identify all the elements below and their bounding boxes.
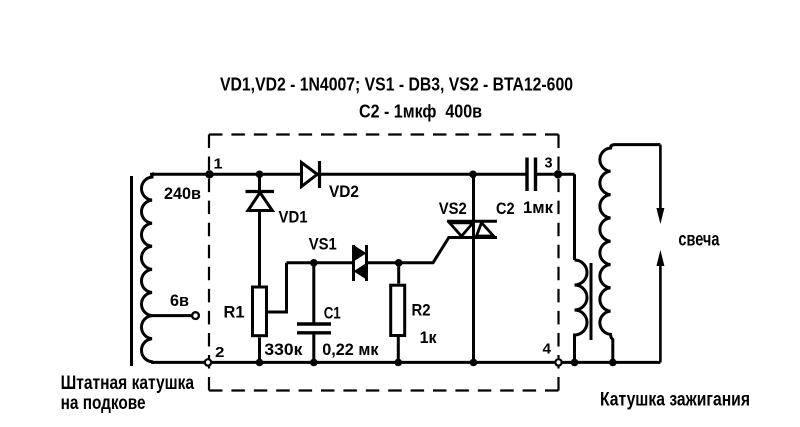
junction dot triac bottom	[470, 359, 478, 367]
diac VS1 left bar	[352, 245, 355, 281]
wire C1 branch bottom	[312, 335, 315, 363]
diode VD1 triangle	[248, 193, 272, 211]
wire top rail left (node1 to C2 left plate)	[150, 173, 526, 176]
svg-text:Катушка зажигания: Катушка зажигания	[600, 389, 750, 411]
dashed enclosure box top edge	[209, 133, 559, 135]
triac VS2 right triangle	[477, 223, 494, 236]
svg-text:1мк: 1мк	[523, 199, 554, 217]
capacitor C1 bottom plate	[297, 331, 331, 334]
capacitor C2 left plate	[525, 158, 528, 192]
svg-text:свеча: свеча	[678, 229, 719, 251]
diode VD1 cathode bar	[246, 190, 275, 193]
svg-text:1к: 1к	[420, 329, 438, 347]
diac VS1 bottom triangle	[355, 265, 366, 279]
svg-text:C1: C1	[324, 305, 341, 323]
svg-text:VD1: VD1	[279, 209, 308, 227]
svg-text:C2 - 1мкф 400в: C2 - 1мкф 400в	[359, 102, 482, 122]
capacitor C1 top plate	[297, 322, 331, 325]
wire R2 branch top	[397, 263, 400, 284]
wire 6v tap	[152, 314, 192, 317]
wire spark gap lower lead	[659, 265, 662, 362]
capacitor C2 right plate	[534, 158, 537, 192]
junction dot R1 bottom	[256, 359, 264, 367]
svg-text:VS2: VS2	[439, 200, 467, 218]
dashed enclosure box bottom edge	[209, 389, 559, 391]
junction dot primary bottom	[571, 359, 579, 367]
node 1	[205, 170, 213, 178]
svg-text:VD1,VD2 - 1N4007; VS1 - DB3, V: VD1,VD2 - 1N4007; VS1 - DB3, VS2 - BTA12…	[220, 74, 573, 95]
transformer T1 winding (240v coil)	[141, 174, 154, 363]
diac VS1 top triangle	[355, 247, 366, 261]
transformer T1 core (left coil)	[130, 176, 133, 366]
wire spark gap upper lead	[659, 145, 662, 210]
diode VD2 cathode bar	[318, 161, 321, 188]
svg-text:330к: 330к	[264, 341, 303, 359]
wire ignition primary drop	[573, 174, 576, 260]
arrow spark gap upper (down)	[656, 208, 664, 224]
junction dot C1 bottom	[310, 359, 318, 367]
ignition coil core bar	[590, 263, 593, 340]
ignition coil secondary winding	[600, 145, 615, 363]
node 2	[205, 359, 211, 365]
wire VD1 branch top	[258, 174, 261, 285]
wire R2 bottom	[397, 337, 400, 362]
svg-text:R1: R1	[224, 304, 245, 322]
wire top rail right (C2 right plate to corner)	[537, 173, 575, 176]
svg-text:VD2: VD2	[329, 183, 359, 201]
ignition coil primary winding	[575, 260, 588, 362]
node 4	[555, 359, 561, 365]
svg-text:240в: 240в	[164, 185, 201, 203]
junction dot C1 top	[310, 259, 318, 267]
svg-text:C2: C2	[496, 200, 515, 218]
svg-text:6в: 6в	[170, 292, 189, 310]
svg-text:1: 1	[214, 156, 223, 173]
diode VD2 triangle	[302, 163, 318, 187]
svg-text:Штатная катушка: Штатная катушка	[61, 372, 195, 394]
wire R1 bottom	[258, 338, 261, 363]
svg-text:R2: R2	[412, 302, 431, 320]
resistor R2 body	[391, 285, 405, 335]
wire VS1 to gate diagonal	[367, 238, 449, 263]
svg-text:0,22 мк: 0,22 мк	[322, 341, 379, 359]
junction dot triac top	[469, 171, 477, 179]
node 3	[554, 170, 562, 178]
resistor R1 body	[253, 287, 267, 336]
junction dot R2 bottom	[395, 359, 403, 367]
junction dot secondary bottom	[609, 359, 617, 367]
svg-text:на подкове: на подкове	[61, 392, 146, 414]
triac VS2 left triangle	[450, 223, 474, 236]
svg-text:VS1: VS1	[309, 236, 337, 254]
dashed enclosure box right edge	[557, 135, 559, 391]
terminal 6v (open circle)	[192, 312, 199, 319]
diac VS1 right bar	[365, 245, 368, 281]
arrow spark gap lower (up)	[656, 250, 664, 266]
wire C1 branch top	[312, 263, 315, 323]
wire VS1 gate run (left of diac)	[287, 261, 354, 264]
wire triac branch vertical	[472, 174, 475, 362]
triac VS2 top bar	[447, 220, 497, 223]
svg-text:4: 4	[543, 341, 552, 358]
wire bottom rail	[151, 361, 660, 364]
junction dot R2 top	[395, 259, 403, 267]
svg-text:2: 2	[215, 344, 225, 361]
wire secondary top	[614, 143, 660, 146]
wire R1 wiper tap	[268, 263, 287, 312]
dashed enclosure box left edge	[208, 135, 210, 391]
junction dot VD1 top	[256, 171, 264, 179]
svg-text:3: 3	[545, 154, 553, 171]
triac VS2 bottom bar	[448, 236, 498, 239]
